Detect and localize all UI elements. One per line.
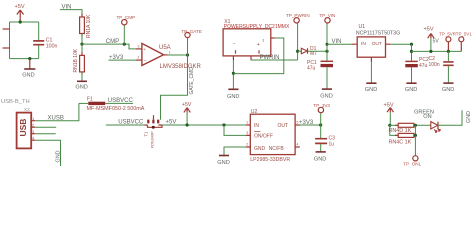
svg-text:RN1B 10K: RN1B 10K (73, 48, 79, 72)
svg-text:MF-MSMF050-2 500mA: MF-MSMF050-2 500mA (87, 106, 145, 112)
LED ON (green power LED) (414, 110, 440, 133)
svg-text:47u: 47u (419, 63, 428, 69)
wire +3V3 stub to op-amp (109, 59, 136, 61)
svg-text:GND: GND (227, 94, 239, 100)
test point TP_5V1 (456, 31, 472, 51)
wire TP_3V3 stem (320, 113, 322, 125)
wire VIN top (60, 10, 82, 17)
svg-text:USB: USB (18, 119, 28, 137)
svg-text:U5A: U5A (159, 45, 171, 51)
node junction RN4 top (414, 124, 417, 127)
svg-text:+3V3: +3V3 (299, 120, 314, 126)
pin 4 stub X2 (31, 139, 35, 141)
svg-text:USB-B_TH: USB-B_TH (1, 99, 30, 105)
svg-text:47u: 47u (307, 66, 316, 72)
wire X1 pin1 to ground (232, 60, 234, 89)
node junction LED +5V (388, 124, 391, 127)
wire to U2 ON/OFF (224, 125, 246, 135)
svg-text:USBVCC: USBVCC (108, 98, 134, 104)
svg-text:RN1A 10K: RN1A 10K (86, 14, 92, 38)
wire USB ground down to edge (35, 140, 60, 166)
wire U2 GND to ground (224, 147, 246, 155)
ground (U2) (217, 156, 229, 167)
svg-text:TP_ONL: TP_ONL (403, 161, 421, 166)
svg-text:3: 3 (32, 130, 34, 134)
node CMP junction (80, 43, 83, 46)
svg-text:+5V: +5V (166, 120, 177, 126)
svg-text:TP_PWRIN: TP_PWRIN (286, 13, 310, 18)
resistor RN1A 10K (80, 14, 92, 38)
svg-text:TP_VIN: TP_VIN (319, 13, 335, 18)
node junction RN4 bottom (414, 134, 417, 137)
pin stub 2 (off-page connector) (3, 47, 10, 49)
svg-text:FDN340P: FDN340P (150, 131, 154, 148)
op-amp U5A LMV358IDGKR (142, 43, 202, 70)
node junction +5V arrow (right) (429, 50, 432, 53)
ground (PC2) (405, 83, 417, 93)
svg-text:USBVCC: USBVCC (118, 120, 144, 126)
svg-text:GND: GND (365, 87, 377, 93)
test point TP_GATE (181, 29, 202, 38)
svg-text:F1: F1 (87, 96, 93, 102)
wire divider lower (81, 44, 83, 55)
svg-text:4: 4 (32, 136, 34, 140)
svg-text:100n: 100n (429, 62, 440, 68)
svg-text:U1: U1 (359, 24, 366, 30)
wire TP_GATE stem (187, 38, 189, 55)
ground (C3) (314, 152, 326, 162)
svg-text:GND: GND (254, 146, 266, 152)
svg-text:NC/FB: NC/FB (269, 146, 285, 152)
wire RN4C branch left (390, 125, 398, 135)
svg-text:+5V: +5V (182, 102, 192, 108)
svg-text:GND: GND (75, 85, 87, 91)
wire C2 drop (447, 51, 449, 61)
svg-text:4: 4 (297, 142, 299, 146)
supply +5V arrow (LED block) (384, 102, 394, 125)
node junction +5V arrow (186, 123, 189, 126)
svg-text:TP_5VR: TP_5VR (439, 31, 456, 36)
test point TP_ONL (403, 156, 421, 167)
svg-text:IN: IN (361, 41, 366, 47)
node junction diode tap (296, 50, 299, 53)
svg-text:TP_GATE: TP_GATE (181, 29, 202, 34)
pin 3 stub X2 (31, 133, 35, 135)
svg-text:ON/OFF: ON/OFF (254, 133, 273, 139)
svg-text:+5V: +5V (384, 102, 394, 108)
test point TP_5VR (439, 31, 456, 51)
wire C2 to ground (447, 66, 449, 83)
pin 1 stub X2 (31, 120, 35, 122)
svg-text:+5V: +5V (424, 27, 434, 33)
wire RN4D to LED node (414, 124, 431, 126)
ground (C2) (442, 83, 454, 93)
svg-text:3: 3 (262, 38, 264, 42)
wire TP_CMP stem (123, 25, 125, 44)
node junction U1 OUT (410, 43, 413, 46)
wire U1 GND to ground (370, 62, 372, 83)
supply +5V arrow (rail) (182, 102, 192, 125)
wire bottom rail C1 block (10, 58, 39, 60)
capacitor C2 100n (429, 56, 454, 68)
ground (RN1B) (75, 81, 87, 90)
capacitor PC2 47u (polarized) (405, 57, 429, 69)
supply +5V (top-left) (15, 4, 25, 22)
svg-text:1: 1 (32, 117, 34, 121)
wire RN1A to CMP node (81, 34, 83, 45)
svg-text:+: + (143, 47, 146, 52)
wire USBVCC (fuse output) (105, 102, 133, 104)
connector X2 USB-B_TH (1, 99, 31, 148)
svg-text:RN4C 1K: RN4C 1K (389, 139, 412, 145)
svg-text:1u: 1u (329, 141, 335, 147)
resistor RN4D 1K (389, 123, 418, 134)
svg-text:TP_3V3: TP_3V3 (313, 103, 330, 108)
ground (U1) (365, 83, 377, 93)
wire diode cathode to VIN node (308, 50, 328, 52)
ground (C1 block) (22, 59, 35, 79)
wire C3 to ground (320, 144, 322, 152)
power jack X1 POWERSUPPLY_DC21MMX (223, 19, 290, 56)
wire PWRIN (251, 59, 298, 61)
svg-text:XUSB: XUSB (48, 116, 64, 122)
svg-text:ON: ON (423, 114, 431, 120)
svg-text:TP_CMP: TP_CMP (117, 15, 136, 20)
svg-text:GND: GND (22, 73, 34, 79)
resistor RN4C 1K (389, 133, 418, 145)
svg-text:2: 2 (246, 142, 248, 146)
pin numbers X2 (32, 117, 34, 141)
svg-text:M7: M7 (310, 51, 317, 57)
wire TP_ONL stem (414, 135, 416, 155)
svg-text:−: − (233, 41, 236, 47)
svg-text:GND: GND (56, 150, 62, 162)
pin 1 stub X1 (232, 56, 234, 60)
wire +5V to RN4D (390, 124, 398, 126)
wire U1 OUT (391, 43, 412, 45)
test point TP_CMP (117, 15, 136, 25)
svg-text:IN: IN (254, 123, 259, 129)
node junction VIN/diode (325, 50, 328, 53)
wire RN1B to ground (81, 72, 83, 81)
wire RN4C to node (414, 125, 416, 135)
svg-text:PWRIN: PWRIN (260, 55, 280, 61)
node junction bottom rail (28, 57, 31, 60)
capacitor C3 1u (315, 136, 335, 148)
op-amp U5A pin 3 stub (136, 48, 142, 50)
ground (X1) (227, 89, 239, 100)
node junction +3V3 (319, 123, 322, 126)
wire +3V3 to C3 (320, 125, 322, 138)
svg-text:GND: GND (466, 111, 472, 123)
node junction +5V row/PC2 (410, 50, 413, 53)
wire D+ stub (35, 133, 55, 135)
svg-text:5V: 5V (433, 38, 440, 44)
node junction C2 (447, 50, 450, 53)
svg-text:3: 3 (246, 131, 248, 135)
svg-text:OUT: OUT (278, 123, 289, 129)
node junction GATE (186, 53, 189, 56)
node junction TP_CMP (123, 43, 126, 46)
pin 2 stub X1 (250, 56, 252, 60)
svg-text:VIN: VIN (332, 39, 342, 45)
op-amp output stub (164, 54, 168, 56)
svg-text:2: 2 (32, 123, 34, 127)
wire D- stub (35, 126, 56, 128)
test point TP_3V3 (313, 103, 330, 113)
wire +5V row B (412, 50, 462, 52)
svg-text:OUT: OUT (372, 41, 382, 47)
node junction X1 gnd (232, 72, 235, 75)
wire op-amp output (168, 54, 188, 56)
test point TP_VIN (319, 13, 335, 23)
transistor T1 FDN340P (143, 115, 162, 148)
wire PC2 to ground (411, 67, 413, 83)
test point TP_PWRIN (286, 13, 310, 23)
svg-text:T1: T1 (143, 131, 148, 137)
svg-text:GND: GND (405, 87, 417, 93)
wire right edge to capacitor (38, 22, 40, 59)
svg-text:X2: X2 (24, 107, 30, 112)
supply +5V arrow (top right) (424, 27, 435, 52)
svg-text:+: + (257, 42, 260, 48)
wire LED cathode to GND stub (438, 110, 462, 125)
fuse F1 MF-MSMF050-2 (79, 96, 145, 112)
svg-text:NCP1117ST50T3G: NCP1117ST50T3G (356, 30, 400, 36)
wire top rail C1 block (10, 21, 39, 23)
svg-text:100n: 100n (46, 43, 58, 49)
wire GATE_CMD (down, left, down to T1 gate) (161, 55, 188, 120)
ground (PC1) (320, 89, 332, 99)
svg-text:LP2985-33DBVR: LP2985-33DBVR (250, 157, 290, 163)
node junction U2 branch (222, 123, 225, 126)
wire left edge C1 block (9, 22, 11, 59)
svg-text:TP_5V1: TP_5V1 (456, 31, 472, 36)
wire +5V rail (T1 drain to U2 IN) (162, 124, 246, 126)
wire U2 OUT +3V3 (300, 124, 321, 126)
svg-text:3: 3 (138, 45, 140, 49)
op-amp U5A pin 2 stub (136, 59, 142, 61)
svg-text:GND: GND (217, 160, 229, 166)
wire TP_PWRIN stem (297, 23, 299, 60)
capacitor C1 (33, 38, 57, 50)
wire PC1 to ground (326, 67, 328, 89)
node junction VIN to U1 (326, 43, 329, 46)
svg-text:GND: GND (442, 87, 454, 93)
wire down to +5V row (411, 44, 413, 61)
pin 3 stub X1 (271, 37, 275, 39)
svg-text:+5V: +5V (15, 4, 25, 10)
svg-text:−: − (144, 59, 147, 64)
wire X1 pin3 to ground rail (233, 38, 283, 74)
wire to diode anode (298, 50, 302, 52)
resistor RN1B 10K (73, 48, 84, 75)
wire USBVCC to T1 source (106, 124, 145, 126)
svg-text:2: 2 (138, 56, 140, 60)
svg-text:GND: GND (314, 156, 326, 162)
pin stub 1 (off-page connector) (3, 28, 10, 30)
op-amp pin numbers (138, 45, 171, 60)
svg-text:1: 1 (246, 120, 248, 124)
capacitor PC1 47u (polarized) (307, 60, 333, 72)
diode D1 M7 (301, 46, 317, 57)
svg-text:CMP: CMP (106, 39, 119, 45)
wire TP_VIN stem / PC1 drop (326, 23, 328, 61)
node junction top rail (19, 20, 22, 23)
wire CMP row (82, 44, 136, 49)
svg-text:LMV358IDGKR: LMV358IDGKR (160, 64, 202, 70)
regulator U2 LP2985-33DBVR (246, 109, 300, 163)
wire VIN to U1 IN (327, 43, 351, 45)
wire XUSB (pin1 to fuse) (35, 103, 79, 120)
pin 2 stub X2 (31, 126, 35, 128)
regulator U1 NCP1117ST50T3G (351, 24, 400, 62)
svg-text:GATE_CMD: GATE_CMD (189, 67, 195, 95)
svg-text:GND: GND (320, 93, 332, 99)
